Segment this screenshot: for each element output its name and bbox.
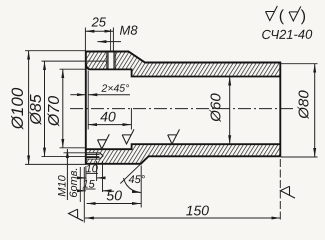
svg-text:150: 150 [186,202,210,218]
dim 25 (to M8 axis) [84,28,86,51]
svg-text:40: 40 [100,108,116,124]
bore outline Ø70 / Ø60 top [86,64,280,77]
svg-text:Ø80: Ø80 [295,90,312,120]
dim Ø70 [60,68,86,70]
label M10 6 holes [66,149,68,200]
svg-text:(: ( [279,8,285,25]
hatched section: bottom wall of bushing [86,144,280,164]
dim 45 degree chamfer [120,164,141,184]
centerline axis [70,108,296,110]
dim Ø60 [229,77,231,145]
bolt circle line Ø85 bottom [42,156,100,158]
svg-text:2×45°: 2×45° [100,83,129,95]
top right: general roughness marks [266,6,278,21]
dim 10 (thread depth) [85,166,87,181]
svg-text:6отв.: 6отв. [68,167,80,197]
svg-text:50: 50 [106,187,122,203]
surface finish marks on bore surfaces [98,134,110,149]
bore outline Ø70 / Ø60 bottom [86,144,280,149]
part outline [86,52,280,164]
dim 15 (hole depth) [102,161,104,192]
dim Ø100 [25,50,86,52]
dim Ø80 [281,63,318,65]
dim 50 [83,167,85,223]
bolt circle line Ø85 top [42,60,108,62]
M8 tapped hole top [107,51,109,70]
dim Ø85 [44,61,46,157]
svg-text:25: 25 [90,14,106,29]
svg-text:Ø100: Ø100 [8,87,27,130]
svg-text:Ø70: Ø70 [46,96,63,127]
svg-text:Ø85: Ø85 [28,94,45,125]
dim 150 [279,159,281,222]
svg-text:СЧ21-40: СЧ21-40 [261,27,313,42]
M10 tapped hole bottom (axial, section) [86,152,100,154]
svg-text:M8: M8 [119,23,138,38]
surface mark at leader end [69,209,84,221]
svg-text:Ø60: Ø60 [207,93,224,123]
svg-text:45°: 45° [128,174,145,186]
svg-text:М10: М10 [57,174,69,196]
svg-text:): ) [301,8,306,25]
hatched section: top wall of bushing [86,52,107,70]
dim 40 (bore depth) [87,71,89,130]
white cut of M10 hole in bottom wall [85,152,103,159]
surface finish mark at right face [280,186,295,198]
